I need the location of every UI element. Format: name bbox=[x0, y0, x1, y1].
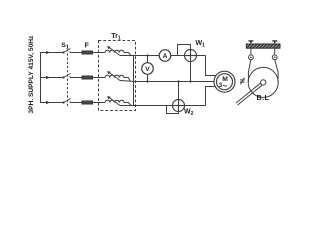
wire phase B input bbox=[41, 102, 64, 104]
shaft double line bbox=[236, 82, 263, 105]
wire W1 voltage coil to line Y bbox=[190, 62, 192, 82]
wire coil end phase 1 bbox=[124, 53, 131, 56]
voltmeter V bbox=[142, 63, 154, 75]
bolt right bbox=[272, 41, 277, 44]
star point bus wire bbox=[133, 56, 135, 106]
variac winding phase 2 bbox=[105, 75, 124, 77]
belt right bbox=[275, 60, 278, 83]
variac winding phase 3 bbox=[105, 100, 124, 102]
svg-text:A: A bbox=[163, 53, 168, 60]
wire switch to fuse 2 bbox=[72, 77, 83, 79]
node V bottom bbox=[146, 80, 148, 82]
svg-text:~: ~ bbox=[223, 82, 228, 91]
wire voltmeter bottom stub bbox=[147, 74, 149, 81]
wire line B output bbox=[136, 105, 206, 107]
variac tap arrow phase 2 bbox=[107, 71, 120, 81]
wire tap output phase 2 bbox=[120, 81, 136, 82]
wire voltmeter top stub bbox=[147, 56, 149, 63]
wire switch to fuse 3 bbox=[72, 102, 83, 104]
svg-text:V: V bbox=[145, 66, 150, 73]
wire line Y output bbox=[136, 81, 215, 83]
wire fuse to Tr1 phase 1 bbox=[93, 52, 106, 54]
wire switch to fuse 1 bbox=[72, 52, 83, 54]
wire phase R input bbox=[41, 52, 64, 54]
fuse phase 2 bbox=[82, 76, 93, 79]
wire coil end phase 3 bbox=[124, 103, 131, 106]
ammeter A bbox=[159, 50, 171, 62]
wattmeter W2 voltage jumper bbox=[167, 106, 179, 114]
wire W2 voltage coil to line Y bbox=[178, 82, 180, 100]
node W1 on line Y bbox=[189, 80, 191, 82]
brake pulley drum bbox=[248, 67, 278, 97]
wire phase Y input bbox=[41, 77, 64, 79]
wire fuse to Tr1 phase 2 bbox=[93, 77, 106, 79]
belt left bbox=[248, 60, 251, 83]
hanger wire right bbox=[274, 48, 276, 55]
svg-text:3PH. SUPPLY 415V, 50Hz: 3PH. SUPPLY 415V, 50Hz bbox=[28, 35, 35, 114]
wire coil end phase 2 bbox=[124, 78, 130, 82]
pulley hub bbox=[261, 80, 266, 85]
hanger wire left bbox=[250, 48, 252, 55]
bolt left bbox=[248, 41, 253, 44]
wire line B up step to motor bbox=[206, 87, 216, 106]
svg-text:S1: S1 bbox=[61, 42, 69, 50]
supply bus vertical wire bbox=[40, 52, 42, 103]
wire line R output bbox=[136, 55, 206, 57]
variac winding phase 1 bbox=[105, 50, 124, 52]
svg-text:W2: W2 bbox=[184, 109, 194, 117]
spring balance right bbox=[272, 55, 277, 60]
transformer Tr1 dashed box bbox=[99, 41, 136, 111]
switch S1 gang dashed link bbox=[67, 45, 69, 107]
arrow phase Y bbox=[46, 76, 50, 80]
motor M 3ph bbox=[214, 71, 235, 92]
fuse F phase 1 bbox=[82, 51, 93, 54]
wire tap output phase 3 bbox=[120, 105, 136, 107]
wire tap output phase 1 bbox=[120, 55, 136, 57]
node V top bbox=[146, 54, 148, 56]
switch pole 2 bbox=[62, 74, 72, 79]
variac tap arrow phase 1 bbox=[107, 46, 120, 56]
fuse phase 3 bbox=[82, 101, 93, 104]
shaft coupling mark bbox=[240, 78, 245, 85]
wattmeter W1 bbox=[185, 50, 197, 62]
svg-text:W1: W1 bbox=[196, 40, 206, 48]
wire fuse to Tr1 phase 3 bbox=[93, 102, 106, 104]
svg-text:F: F bbox=[85, 43, 90, 50]
switch pole 3 bbox=[62, 99, 72, 104]
switch S1 pole 1 bbox=[62, 49, 72, 54]
wattmeter W1 voltage jumper bbox=[178, 45, 191, 56]
support bar hatched bbox=[246, 44, 280, 48]
variac tap arrow phase 3 bbox=[107, 96, 120, 106]
wire line R down step to motor bbox=[206, 56, 217, 76]
wattmeter W2 bbox=[173, 100, 185, 112]
node W2 on line Y bbox=[177, 80, 179, 82]
svg-text:B.L: B.L bbox=[257, 93, 270, 102]
arrow phase R bbox=[46, 51, 50, 55]
spring balance left bbox=[249, 55, 254, 60]
arrow phase B bbox=[46, 101, 50, 105]
